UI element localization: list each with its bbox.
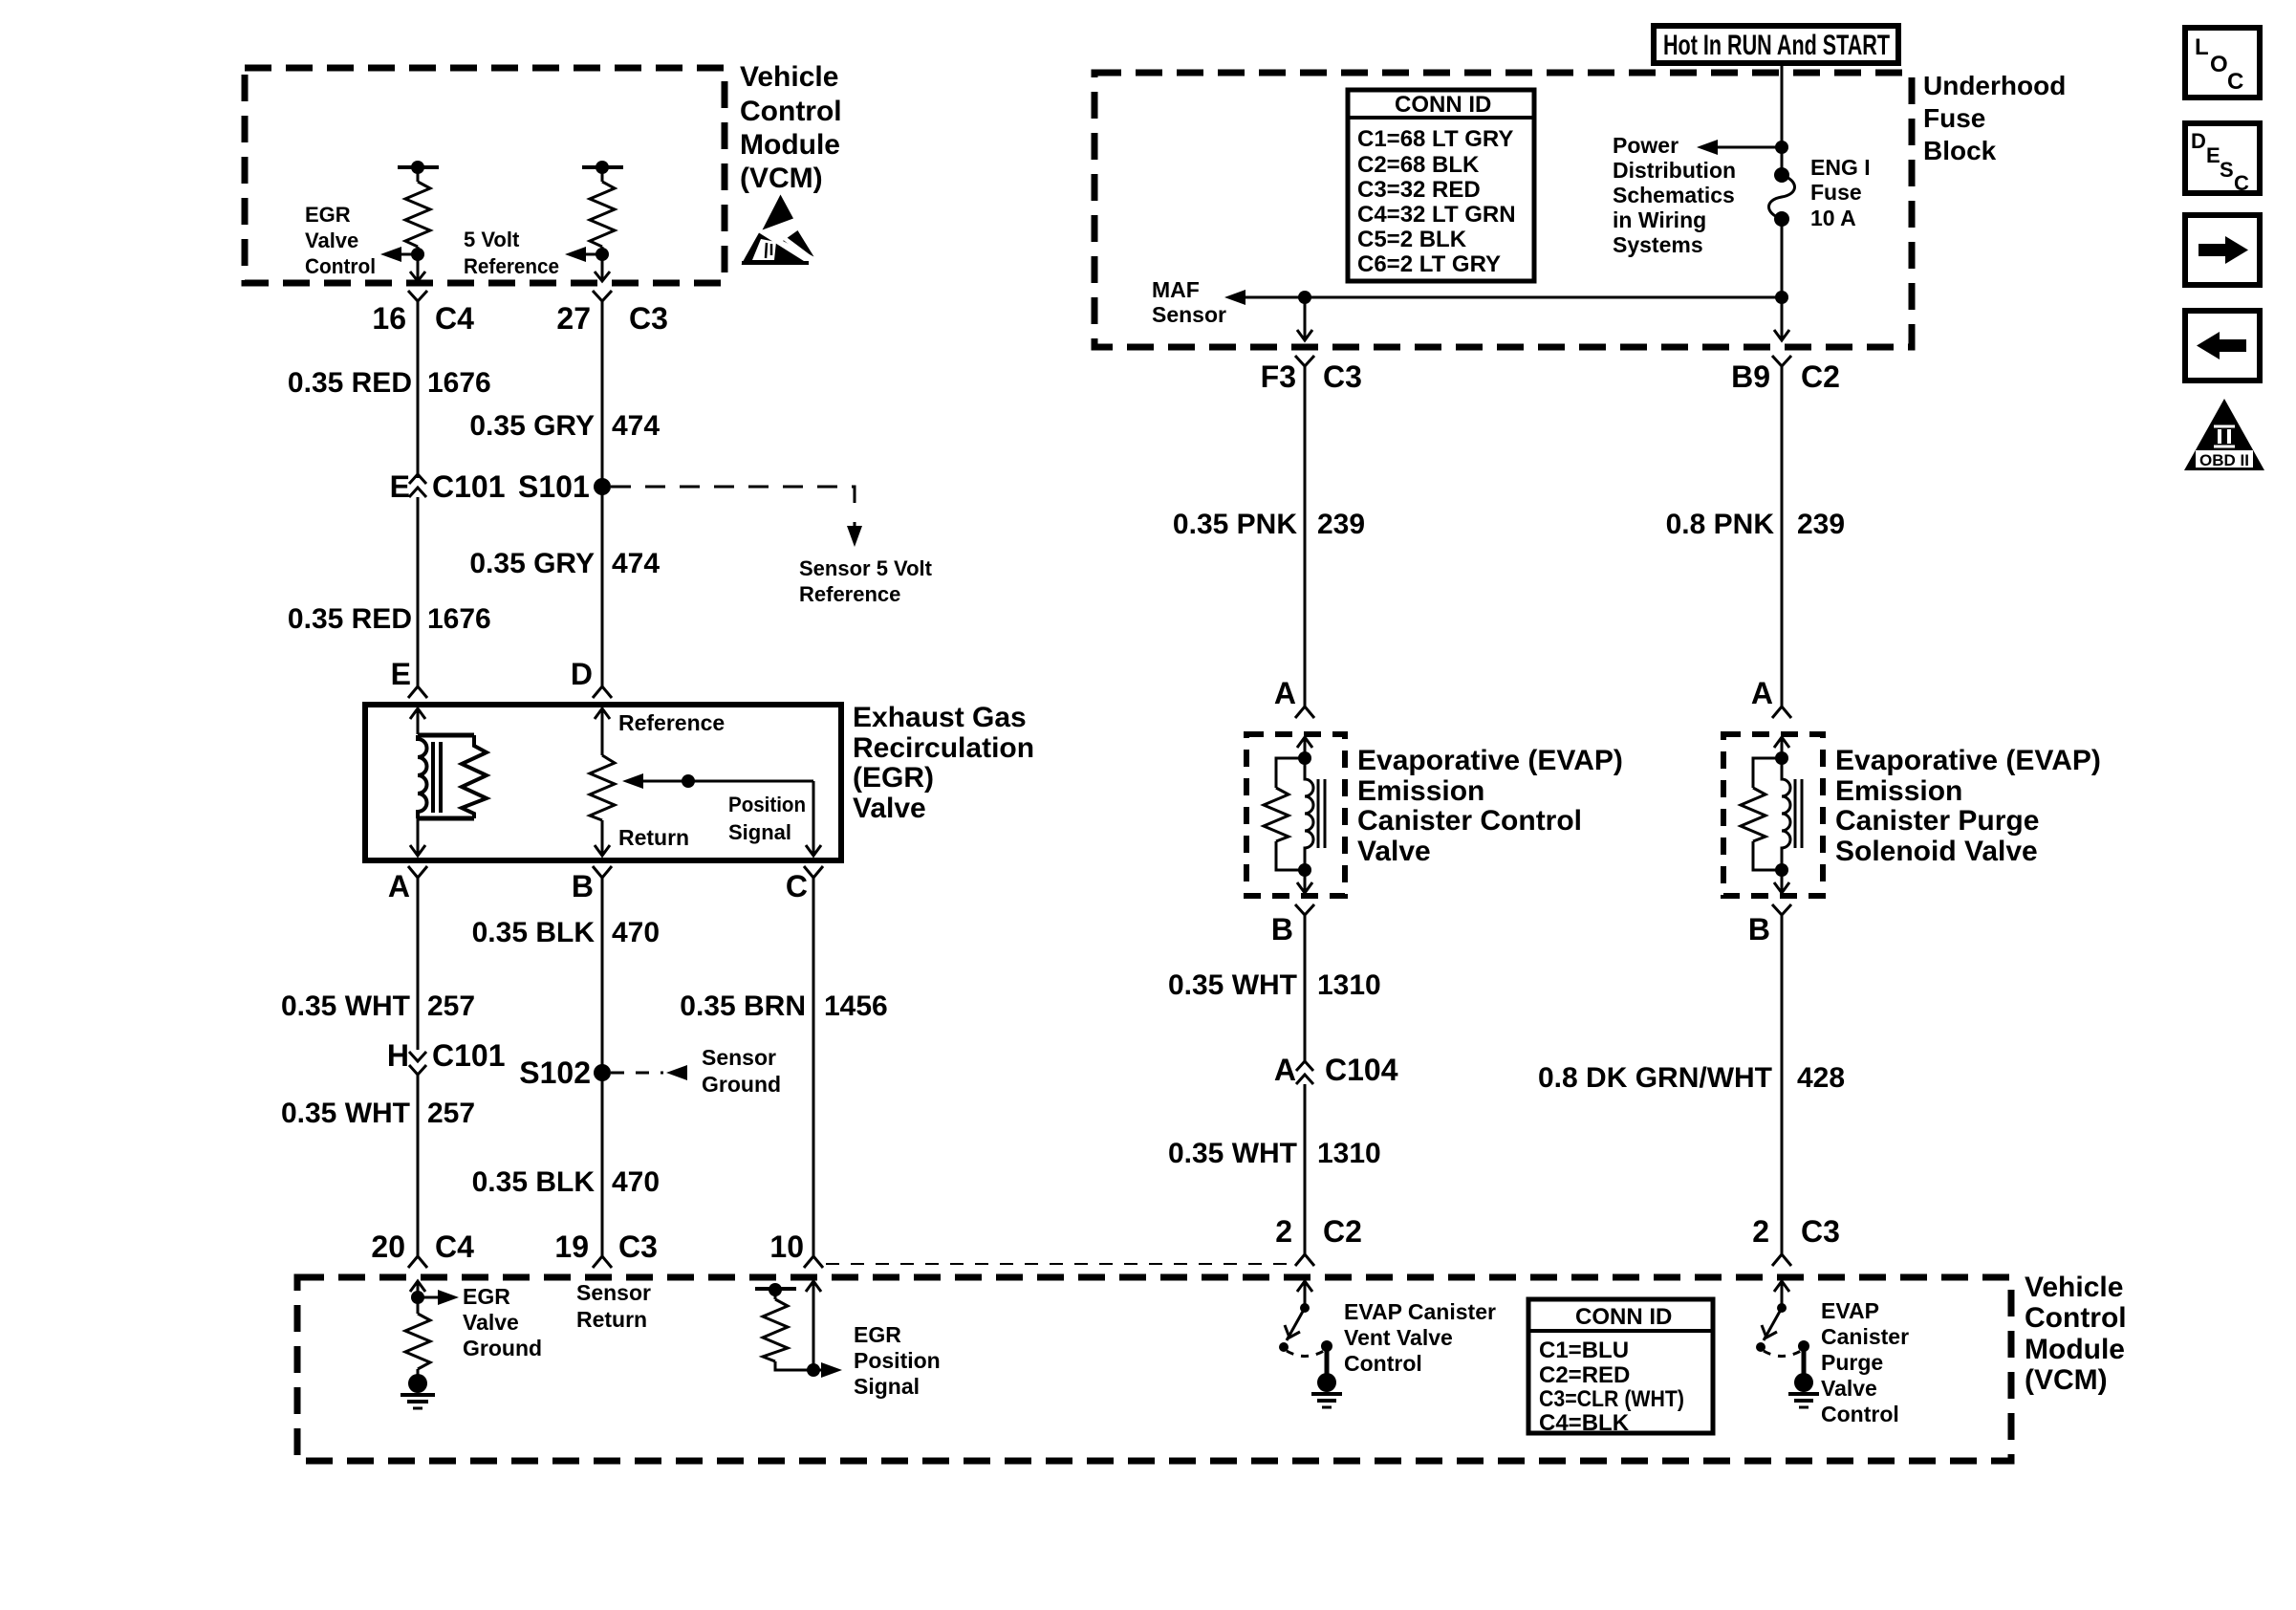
node: EGR valve ground junction with arrow	[411, 1290, 459, 1305]
svg-text:0.35 GRY: 0.35 GRY	[469, 548, 595, 579]
label: Hot In RUN And START	[1663, 30, 1890, 61]
label: Underhood Fuse Block	[1923, 71, 2066, 165]
svg-text:474: 474	[612, 548, 660, 579]
label: A C104	[1274, 1053, 1398, 1087]
connector: EGR valve pin A	[408, 866, 427, 885]
svg-text:A: A	[1751, 676, 1773, 710]
svg-text:Block: Block	[1923, 136, 1997, 165]
label: 0.35 RED 1676 (lower)	[288, 603, 491, 635]
label: 0.35 WHT 1310 (upper)	[1168, 969, 1381, 1001]
ground: EVAP purge valve driver ground	[1788, 1373, 1819, 1407]
svg-text:C3: C3	[1801, 1214, 1840, 1249]
wire: 0.35 BLK 470 from S102 to VCM pin 19	[601, 1073, 604, 1256]
svg-text:A: A	[388, 869, 410, 903]
icon: LOC legend box	[2185, 28, 2260, 98]
svg-text:Canister: Canister	[1821, 1324, 1909, 1349]
wire: 0.35 WHT 257 from C101 to VCM pin 20	[417, 1075, 420, 1256]
connector pin 16 C4	[408, 291, 427, 310]
connector: EGR valve pin C	[804, 866, 823, 885]
label: 0.35 GRY 474 (upper)	[469, 410, 660, 442]
node: EVAP control valve bottom junction	[1298, 863, 1311, 877]
node: EVAP purge valve top junction	[1775, 751, 1788, 765]
svg-text:Schematics: Schematics	[1613, 183, 1735, 207]
label: 16 C4	[372, 301, 474, 336]
connector pin 2 C3	[1772, 1241, 1791, 1266]
svg-text:Vehicle: Vehicle	[740, 61, 838, 93]
svg-text:239: 239	[1797, 509, 1845, 540]
wire: arrow down to terminal B9	[1774, 330, 1789, 340]
label: 19 C3	[554, 1229, 658, 1264]
label: C (EGR valve pin)	[786, 869, 808, 903]
coil: EVAP purge valve solenoid winding	[1782, 758, 1802, 870]
wire: 0.8 DK GRN/WHT 428 from pin B to VCM pin 2 C3	[1781, 924, 1784, 1241]
label: ENG I Fuse 10 A	[1810, 155, 1871, 230]
svg-text:(VCM): (VCM)	[740, 163, 823, 194]
label: B9 C2	[1731, 359, 1840, 394]
svg-text:B: B	[1271, 912, 1293, 946]
label: Sensor Return	[576, 1280, 651, 1332]
label: fuse block table rows	[1357, 126, 1516, 277]
label: MAF Sensor	[1152, 277, 1226, 327]
label: CONN ID header (VCM table)	[1575, 1304, 1672, 1330]
label: 0.35 BLK 470 (lower)	[472, 1166, 660, 1198]
svg-text:Valve: Valve	[853, 793, 926, 824]
svg-text:L: L	[2195, 34, 2209, 60]
svg-text:Sensor: Sensor	[576, 1280, 651, 1305]
svg-text:E: E	[391, 657, 411, 691]
node: EGR valve control junction dot and arrow	[380, 247, 424, 262]
svg-text:Valve: Valve	[1357, 836, 1431, 867]
label: 0.35 PNK 239	[1173, 509, 1365, 540]
svg-text:1456: 1456	[824, 990, 888, 1022]
svg-text:Vent Valve: Vent Valve	[1344, 1325, 1453, 1350]
label: VCM table rows	[1539, 1338, 1684, 1436]
wire: 0.8 PNK 239 from B9 to EVAP purge valve pin A	[1781, 377, 1784, 701]
svg-text:0.8 PNK: 0.8 PNK	[1666, 509, 1775, 540]
svg-text:EVAP: EVAP	[1821, 1298, 1879, 1323]
label: EGR Valve Ground	[463, 1284, 542, 1360]
svg-text:0.35 BRN: 0.35 BRN	[680, 990, 806, 1022]
svg-text:257: 257	[427, 1098, 475, 1129]
svg-text:C4=BLK: C4=BLK	[1539, 1410, 1630, 1436]
svg-text:Reference: Reference	[618, 710, 725, 735]
svg-text:1310: 1310	[1317, 1138, 1381, 1169]
label: D (EGR valve pin)	[571, 657, 593, 691]
svg-text:Canister Control: Canister Control	[1357, 805, 1582, 837]
svg-text:0.35 RED: 0.35 RED	[288, 603, 412, 635]
wire: 0.35 BLK 470 from pin B to S102	[601, 885, 604, 1073]
svg-text:0.35 GRY: 0.35 GRY	[469, 410, 595, 442]
wiper arrow of EGR position sensor	[622, 773, 813, 789]
svg-text:D: D	[571, 657, 593, 691]
svg-text:C2=68 BLK: C2=68 BLK	[1357, 152, 1480, 178]
connector pin 19 C3	[593, 1248, 612, 1268]
svg-text:Control: Control	[740, 96, 842, 127]
svg-text:C3=32 RED: C3=32 RED	[1357, 177, 1481, 203]
svg-text:Sensor: Sensor	[1152, 302, 1226, 327]
resistor: EGR valve ground driver	[405, 1314, 430, 1375]
splice S101	[594, 478, 862, 547]
wire: battery feed from Hot box to fuse	[1781, 63, 1784, 175]
svg-text:MAF: MAF	[1152, 277, 1200, 302]
label: B (EGR valve pin)	[572, 869, 594, 903]
svg-text:0.35 BLK: 0.35 BLK	[472, 1166, 596, 1198]
svg-text:Control: Control	[2025, 1302, 2127, 1334]
label: Power Distribution Schematics in Wiring Systems	[1613, 133, 1736, 257]
svg-text:1310: 1310	[1317, 969, 1381, 1001]
svg-text:474: 474	[612, 410, 660, 442]
connector: EGR valve pin E	[408, 683, 427, 698]
svg-text:S102: S102	[519, 1055, 591, 1090]
component box: EVAP emission canister control valve	[1246, 734, 1345, 896]
svg-text:Fuse: Fuse	[1923, 103, 1985, 133]
svg-text:0.35 BLK: 0.35 BLK	[472, 917, 596, 948]
fuse ENG I 10 A	[1769, 167, 1795, 227]
table: CONN ID (VCM)	[1528, 1299, 1713, 1433]
svg-text:A: A	[1274, 1053, 1296, 1087]
svg-text:C4: C4	[435, 301, 474, 336]
connector: EGR valve pin B	[593, 866, 612, 885]
svg-text:C1=BLU: C1=BLU	[1539, 1338, 1629, 1363]
svg-text:Valve: Valve	[305, 228, 358, 252]
svg-text:0.8 DK GRN/WHT: 0.8 DK GRN/WHT	[1538, 1062, 1772, 1094]
module box: Underhood Fuse Block	[1094, 73, 1912, 347]
connector C104 pin A (in-line)	[1296, 1061, 1313, 1084]
resistor: EVAP purge valve suppression resistor	[1741, 758, 1782, 870]
power feed box: Hot In RUN And START	[1654, 26, 1898, 63]
svg-text:10 A: 10 A	[1810, 206, 1856, 230]
svg-text:Solenoid Valve: Solenoid Valve	[1835, 836, 2038, 867]
wire: EGR valve ground arrow into VCM	[410, 1281, 425, 1314]
svg-text:B: B	[572, 869, 594, 903]
node: EVAP control valve top junction	[1298, 751, 1311, 765]
wire: 0.35 RED 1676 from C101 to EGR valve pin E	[417, 497, 420, 683]
svg-text:C104: C104	[1325, 1053, 1398, 1087]
svg-text:2: 2	[1752, 1214, 1769, 1249]
wire: dashed link from pin 10 connector to pin 2 C2 connector	[826, 1263, 1296, 1265]
wire: 0.35 RED 1676 from pin 16 to C101	[417, 310, 420, 478]
svg-text:0.35 WHT: 0.35 WHT	[1168, 969, 1297, 1001]
label: Vehicle Control Module (VCM) bottom	[2025, 1272, 2127, 1396]
svg-text:Sensor 5 Volt: Sensor 5 Volt	[799, 556, 933, 580]
svg-text:C4=32 LT GRN: C4=32 LT GRN	[1357, 202, 1516, 228]
label: H C101	[387, 1038, 506, 1073]
svg-text:0.35 PNK: 0.35 PNK	[1173, 509, 1297, 540]
wire: EGR position signal arrow into VCM	[806, 1281, 821, 1370]
svg-text:Module: Module	[2025, 1334, 2125, 1365]
label: B (EVAP control valve pin)	[1271, 912, 1293, 946]
connector: EVAP purge valve pin A	[1772, 701, 1791, 718]
wire: 0.35 WHT 1310 from pin B to C104	[1304, 924, 1307, 1063]
svg-text:Evaporative (EVAP): Evaporative (EVAP)	[1357, 745, 1623, 776]
svg-text:Position: Position	[854, 1348, 941, 1373]
wire: arrow into VCM pin 27	[595, 272, 610, 281]
svg-text:470: 470	[612, 1166, 660, 1198]
switch: EVAP canister purge valve control driver	[1756, 1281, 1809, 1374]
wire: 0.35 WHT 1310 from C104 to VCM pin 2 C2	[1304, 1084, 1307, 1241]
EGR solenoid coil winding	[418, 735, 474, 818]
svg-text:Exhaust Gas: Exhaust Gas	[853, 702, 1027, 733]
label: Vehicle Control Module (VCM) top	[740, 61, 842, 194]
coil: EVAP control valve solenoid winding	[1305, 758, 1325, 870]
ground: EGR valve ground	[401, 1374, 435, 1408]
label: 0.35 RED 1676 (upper)	[288, 367, 491, 399]
svg-text:Emission: Emission	[1357, 775, 1484, 807]
svg-text:16: 16	[372, 301, 406, 336]
label: E (EGR valve pin)	[391, 657, 411, 691]
svg-text:C3=CLR (WHT): C3=CLR (WHT)	[1539, 1386, 1684, 1412]
svg-text:E: E	[390, 469, 410, 504]
connector terminal B9 C2	[1772, 356, 1791, 377]
connector: EVAP control valve pin A	[1295, 701, 1314, 718]
label: 0.35 BLK 470 (upper)	[472, 917, 660, 948]
svg-text:Vehicle: Vehicle	[2025, 1272, 2123, 1303]
connector pin 27 C3	[593, 291, 612, 310]
svg-text:Ground: Ground	[463, 1336, 542, 1360]
icon: back arrow legend box	[2185, 311, 2260, 381]
label: A (EVAP purge valve pin)	[1751, 676, 1773, 710]
svg-text:E: E	[2206, 143, 2220, 167]
label: S102	[519, 1055, 591, 1090]
EGR solenoid winding resistance zigzag	[462, 735, 487, 818]
svg-text:Module: Module	[740, 129, 840, 161]
module box: Vehicle Control Module (VCM) bottom	[297, 1277, 2011, 1461]
resistor: 5 Volt Reference pull-up (top bar and dot)	[582, 161, 623, 280]
wire: position signal inside EGR valve with arrow down at pin C	[806, 781, 821, 856]
svg-text:Fuse: Fuse	[1810, 180, 1862, 205]
svg-text:Ground: Ground	[702, 1072, 781, 1097]
svg-text:(EGR): (EGR)	[853, 762, 934, 794]
label: EVAP Canister Purge Valve Control	[1821, 1298, 1909, 1426]
label: Evaporative (EVAP) Emission Canister Control Valve	[1357, 745, 1623, 867]
connector: EVAP purge valve pin B	[1772, 904, 1791, 924]
svg-text:Position: Position	[728, 793, 806, 816]
svg-text:EGR: EGR	[854, 1322, 901, 1347]
wire: 0.35 PNK 239 from F3 to EVAP control valve pin A	[1304, 377, 1307, 701]
wire: 0.35 GRY 474 from S101 to EGR valve pin D	[601, 487, 604, 683]
splice S102	[594, 1064, 687, 1081]
connector pin 2 C2	[1295, 1241, 1314, 1266]
module box: Vehicle Control Module (VCM) top	[245, 68, 725, 283]
switch: EVAP canister vent valve control driver	[1279, 1281, 1332, 1374]
wire: 0.35 BRN 1456 from pin C to VCM pin 10	[812, 885, 815, 1256]
svg-text:Signal: Signal	[728, 820, 791, 844]
svg-text:C6=2 LT GRY: C6=2 LT GRY	[1357, 251, 1501, 277]
label: Exhaust Gas Recirculation (EGR) Valve	[853, 702, 1034, 824]
ground: EVAP vent valve driver ground	[1311, 1373, 1342, 1407]
wire: arrow down to terminal F3	[1297, 330, 1312, 340]
label: Evaporative (EVAP) Emission Canister Purge Solenoid Valve	[1835, 745, 2101, 867]
svg-text:1676: 1676	[427, 603, 491, 635]
svg-text:C1=68 LT GRY: C1=68 LT GRY	[1357, 126, 1513, 152]
svg-text:Valve: Valve	[1821, 1376, 1877, 1401]
icon: forward arrow legend box	[2185, 215, 2260, 285]
label: A (EVAP control valve pin)	[1274, 676, 1296, 710]
label: CONN ID header (fuse block table)	[1395, 92, 1491, 118]
svg-text:S: S	[2220, 158, 2234, 182]
svg-text:EVAP Canister: EVAP Canister	[1344, 1299, 1496, 1324]
svg-text:Return: Return	[618, 825, 689, 850]
svg-text:239: 239	[1317, 509, 1365, 540]
wire: arrow up inside EVAP purge valve	[1774, 737, 1789, 758]
label: 2 C3	[1752, 1214, 1840, 1249]
svg-text:C2=RED: C2=RED	[1539, 1362, 1630, 1388]
svg-text:Reference: Reference	[799, 582, 900, 606]
svg-text:Evaporative (EVAP): Evaporative (EVAP)	[1835, 745, 2101, 776]
svg-text:C: C	[786, 869, 808, 903]
connector pin 20 C4	[408, 1248, 427, 1268]
node: F3 branch junction	[1298, 291, 1311, 339]
label: 0.35 WHT 257 (lower)	[281, 1098, 475, 1129]
label: Sensor 5 Volt Reference	[799, 556, 933, 606]
connector terminal F3 C3	[1295, 356, 1314, 377]
label: F3 C3	[1261, 359, 1362, 394]
svg-text:C101: C101	[432, 469, 506, 504]
svg-text:0.35 WHT: 0.35 WHT	[281, 1098, 410, 1129]
label: EGR Valve Control	[305, 203, 376, 278]
icon: DESC legend box	[2185, 123, 2260, 195]
svg-text:D: D	[2191, 129, 2206, 153]
label: 0.35 WHT 1310 (lower)	[1168, 1138, 1381, 1169]
svg-text:0.35 WHT: 0.35 WHT	[1168, 1138, 1297, 1169]
svg-text:C3: C3	[629, 301, 668, 336]
wire: EGR solenoid return with arrow down at pin A	[410, 818, 425, 856]
label: Sensor Ground	[702, 1045, 781, 1097]
resistor: EVAP control valve suppression resistor	[1264, 758, 1305, 870]
label: EVAP Canister Vent Valve Control	[1344, 1299, 1496, 1376]
label: 0.8 DK GRN/WHT 428	[1538, 1062, 1845, 1094]
svg-text:C: C	[2234, 171, 2249, 195]
wire: 0.35 WHT 257 from pin A to C101	[417, 885, 420, 1050]
svg-text:Return: Return	[576, 1307, 647, 1332]
svg-text:EGR: EGR	[305, 203, 351, 227]
svg-text:5 Volt: 5 Volt	[464, 228, 520, 251]
svg-text:(VCM): (VCM)	[2025, 1364, 2108, 1396]
label: Return	[618, 825, 689, 850]
table: CONN ID (fuse block)	[1348, 90, 1534, 281]
svg-text:C4: C4	[435, 1229, 474, 1264]
wire: arrow into VCM pin 16	[410, 272, 425, 281]
wire: arrow down inside EVAP control valve	[1297, 870, 1312, 893]
wire: fused feed down to MAF tap	[1781, 219, 1784, 339]
EGR valve box	[365, 705, 841, 860]
svg-text:20: 20	[371, 1229, 405, 1264]
svg-text:Control: Control	[1344, 1351, 1422, 1376]
label: 0.35 WHT 257 (upper)	[281, 990, 475, 1022]
svg-text:Underhood: Underhood	[1923, 71, 2066, 100]
svg-text:O: O	[2210, 52, 2228, 77]
svg-text:Hot In RUN And START: Hot In RUN And START	[1663, 30, 1890, 61]
svg-text:19: 19	[554, 1229, 589, 1264]
svg-text:0.35 RED: 0.35 RED	[288, 367, 412, 399]
resistor: EGR position signal load (top bar and dot)	[755, 1283, 813, 1370]
label: 27 C3	[556, 301, 668, 336]
label: 0.35 GRY 474 (lower)	[469, 548, 660, 579]
resistor: EGR Valve Control driver (top bar and dot)	[398, 161, 439, 280]
label: 5 Volt Reference	[464, 228, 559, 278]
svg-text:0.35 WHT: 0.35 WHT	[281, 990, 410, 1022]
svg-text:Power: Power	[1613, 133, 1679, 158]
label: EGR Position Signal	[854, 1322, 941, 1399]
label: E C101	[390, 469, 506, 504]
connector: EGR valve pin D	[593, 683, 612, 698]
wire: EGR solenoid feed with arrow up at pin E	[410, 708, 425, 734]
svg-text:428: 428	[1797, 1062, 1845, 1094]
svg-text:C5=2 BLK: C5=2 BLK	[1357, 227, 1467, 252]
svg-text:Canister Purge: Canister Purge	[1835, 805, 2039, 837]
node: power distribution tap with arrow	[1697, 140, 1788, 155]
node: 5 volt reference junction dot and arrow	[565, 247, 609, 262]
wire: arrow up inside EVAP control valve	[1297, 737, 1312, 758]
wire: EGR sensor reference with arrow up at pin D	[595, 708, 610, 755]
svg-text:C101: C101	[432, 1038, 506, 1073]
svg-text:A: A	[1274, 676, 1296, 710]
svg-text:H: H	[387, 1038, 409, 1073]
svg-text:ENG I: ENG I	[1810, 155, 1871, 180]
component box: EVAP emission canister purge solenoid valve	[1723, 734, 1823, 896]
label: 0.8 PNK 239	[1666, 509, 1845, 540]
EGR solenoid core lines	[433, 742, 441, 813]
svg-text:Valve: Valve	[463, 1310, 519, 1335]
svg-text:2: 2	[1275, 1214, 1292, 1249]
connector pin 10	[804, 1248, 823, 1268]
node: EGR position signal junction with arrow	[807, 1362, 842, 1378]
svg-text:Control: Control	[1821, 1402, 1899, 1426]
svg-text:470: 470	[612, 917, 660, 948]
label: B (EVAP purge valve pin)	[1748, 912, 1770, 946]
svg-text:27: 27	[556, 301, 591, 336]
svg-text:Signal: Signal	[854, 1374, 920, 1399]
wire: MAF sensor feed line	[1224, 290, 1788, 305]
svg-text:Distribution: Distribution	[1613, 158, 1736, 183]
connector C101 pin E (in-line)	[409, 474, 426, 497]
label: 0.35 BRN 1456	[680, 990, 887, 1022]
svg-text:C3: C3	[618, 1229, 658, 1264]
ESD sensitivity symbol	[742, 195, 814, 265]
svg-text:Emission: Emission	[1835, 775, 1962, 807]
svg-text:10: 10	[769, 1229, 804, 1264]
label: 10	[769, 1229, 804, 1264]
svg-text:Control: Control	[305, 254, 376, 278]
resistor: EGR position sensor element	[590, 755, 615, 820]
svg-text:Reference: Reference	[464, 254, 559, 278]
svg-text:B9: B9	[1731, 359, 1770, 394]
svg-text:CONN ID: CONN ID	[1395, 92, 1491, 118]
svg-text:Systems: Systems	[1613, 232, 1703, 257]
svg-text:B: B	[1748, 912, 1770, 946]
svg-text:Sensor: Sensor	[702, 1045, 776, 1070]
label: A (EGR valve pin)	[388, 869, 410, 903]
svg-text:C2: C2	[1801, 359, 1840, 394]
svg-text:CONN ID: CONN ID	[1575, 1304, 1672, 1330]
wire: 0.35 GRY 474 from pin 27 to S101	[601, 310, 604, 487]
svg-text:in Wiring: in Wiring	[1613, 207, 1706, 232]
svg-text:257: 257	[427, 990, 475, 1022]
svg-text:OBD II: OBD II	[2199, 451, 2249, 469]
svg-text:Recirculation: Recirculation	[853, 732, 1034, 764]
label: Reference	[618, 710, 725, 735]
connector: EVAP control valve pin B	[1295, 904, 1314, 924]
svg-text:S101: S101	[518, 469, 590, 504]
label: Position Signal	[728, 793, 806, 844]
wire: arrow down inside EVAP purge valve	[1774, 870, 1789, 893]
wire: EGR sensor return with arrow down at pin B	[595, 820, 610, 856]
label: 2 C2	[1275, 1214, 1362, 1249]
label: 20 C4	[371, 1229, 474, 1264]
svg-text:EGR: EGR	[463, 1284, 510, 1309]
svg-text:F3: F3	[1261, 359, 1296, 394]
node: EVAP purge valve bottom junction	[1775, 863, 1788, 877]
